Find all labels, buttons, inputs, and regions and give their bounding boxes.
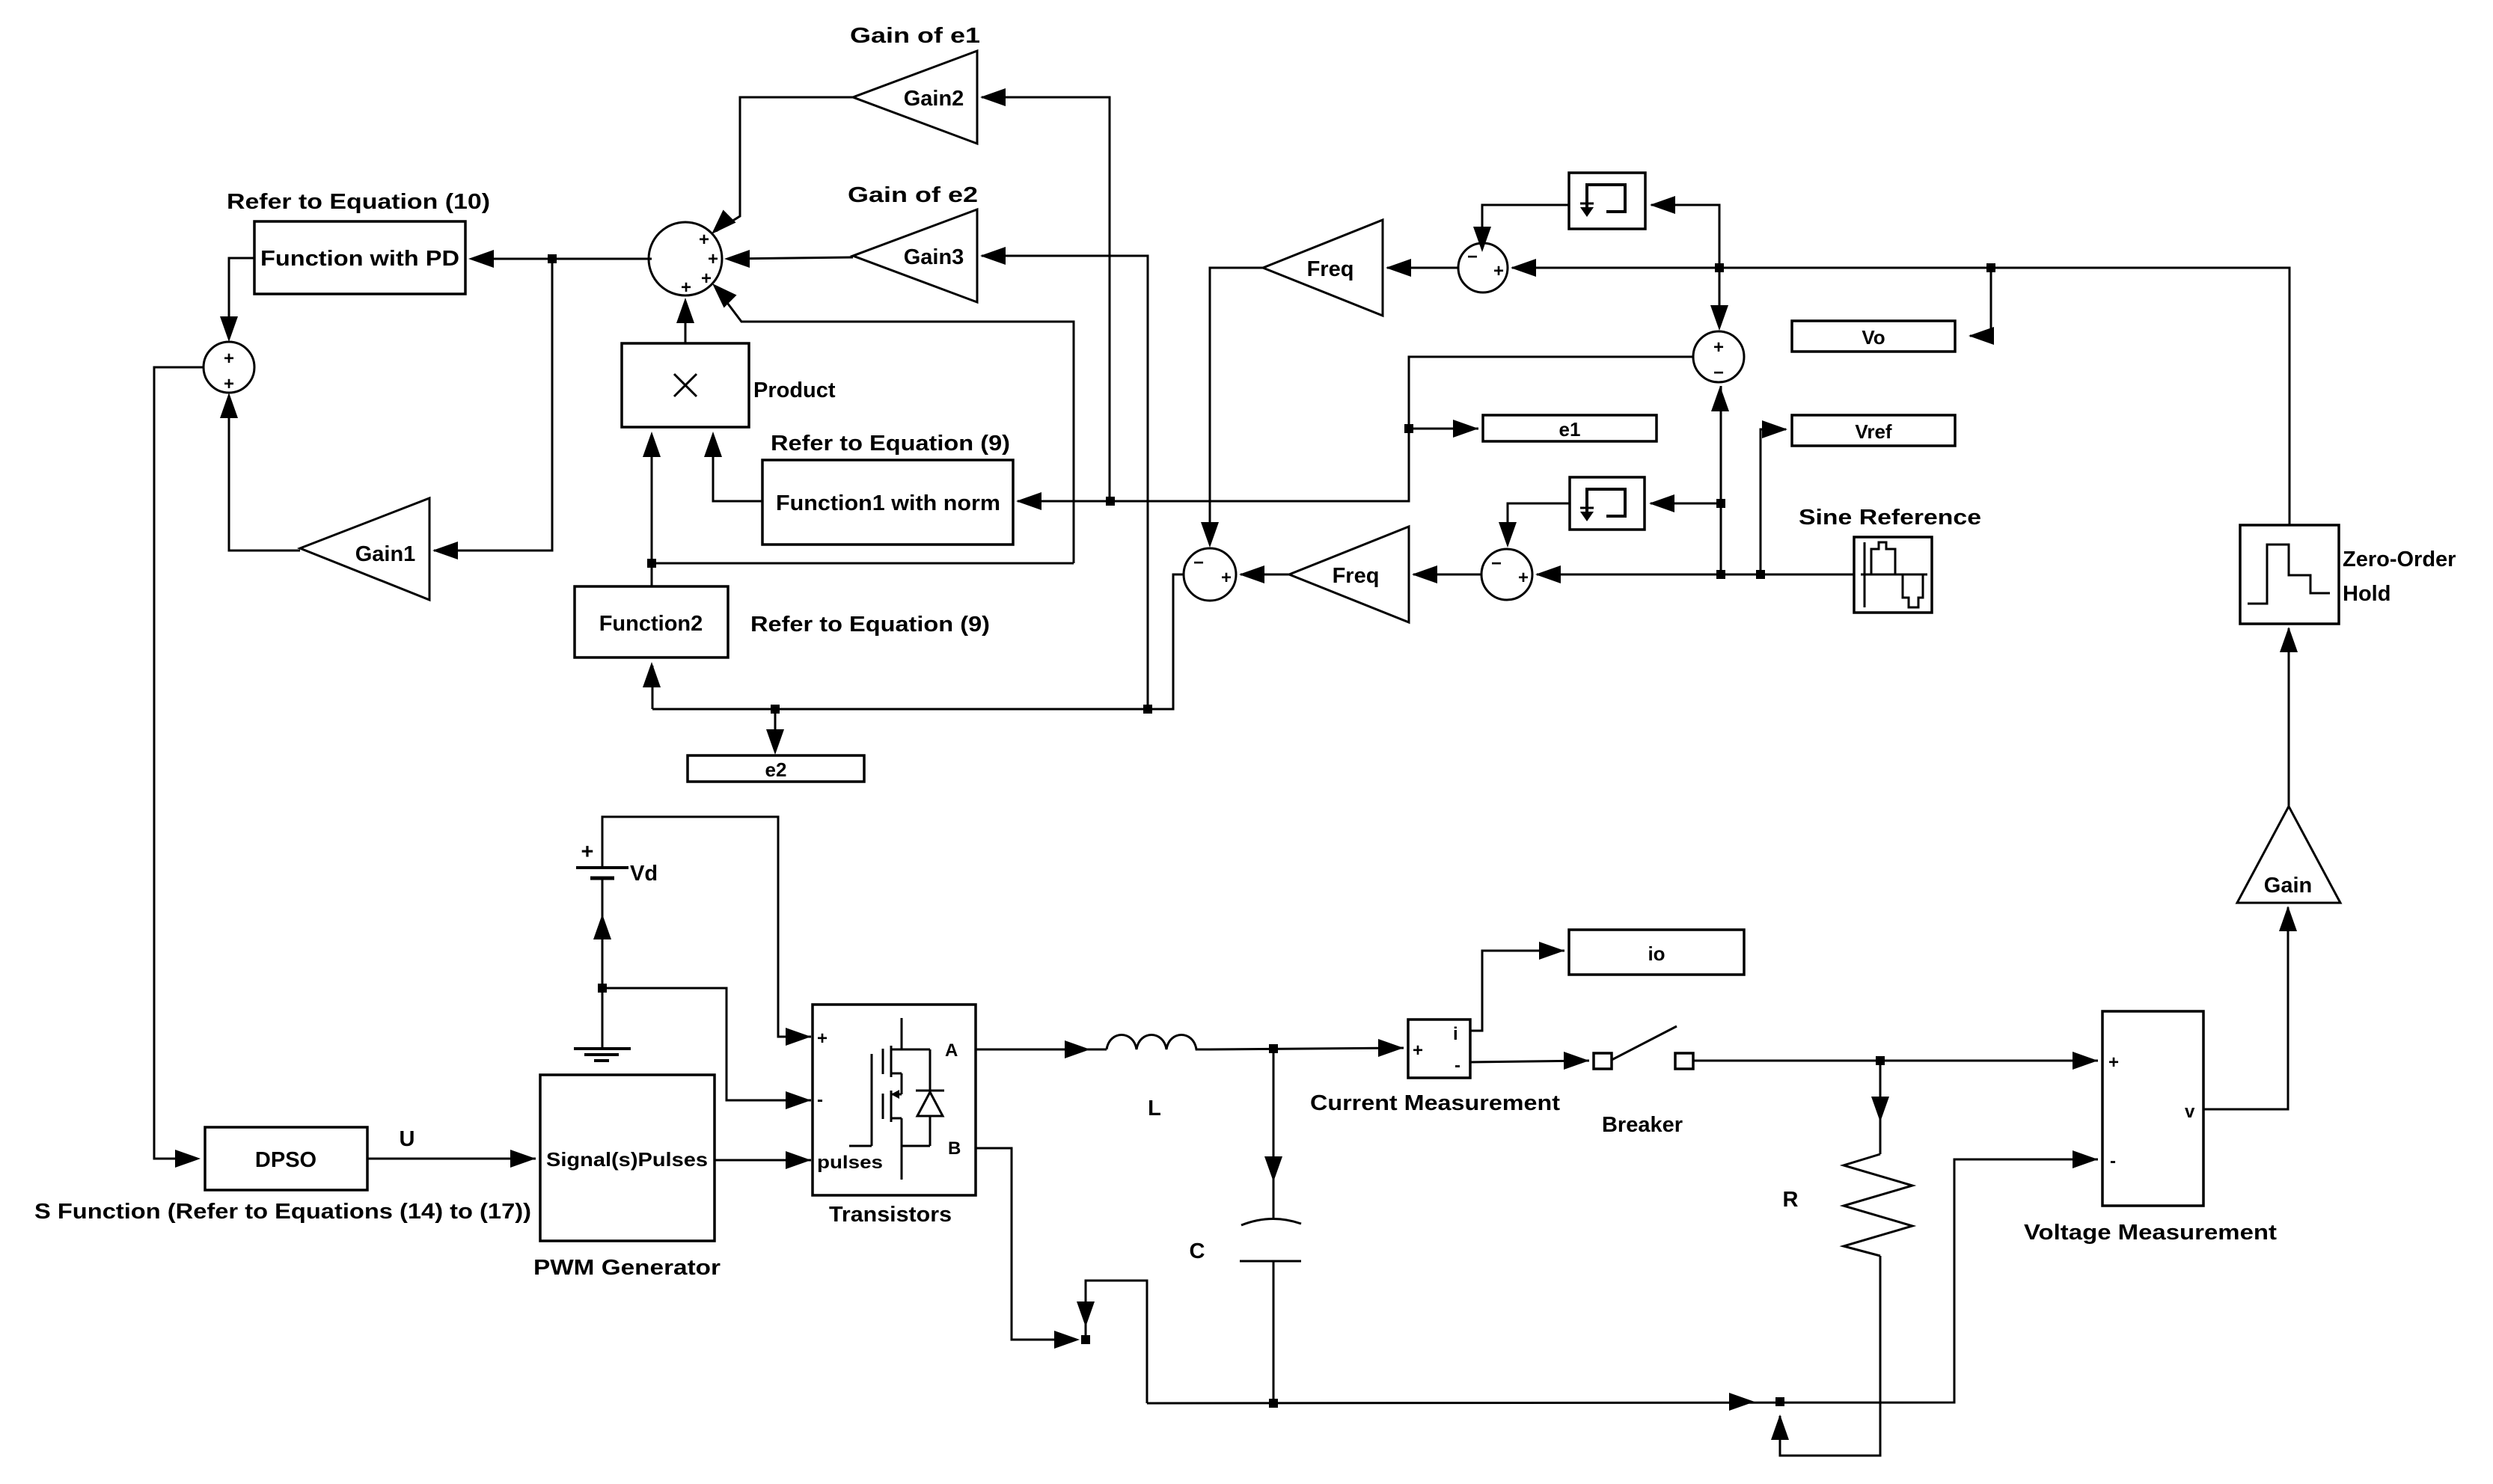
breaker switch xyxy=(1594,1026,1693,1069)
wire minus output to breaker xyxy=(1470,1061,1589,1062)
node junction on PD wire xyxy=(548,254,557,263)
node junction e1 to Gain2 xyxy=(1106,497,1115,506)
block PWM Generator xyxy=(540,1075,715,1241)
wire e2 net to Gain3 input xyxy=(982,256,1148,709)
gain Freq2 xyxy=(1289,527,1409,622)
wire junction down to Gain1 input xyxy=(434,259,552,551)
wire Vo main line east and down to ZOH xyxy=(1719,268,2289,525)
node junction sine-riser xyxy=(1716,570,1725,579)
node junction on Function2 output xyxy=(647,559,656,568)
svg-text:Gain: Gain xyxy=(2264,874,2312,898)
block Function2 xyxy=(575,586,728,657)
svg-text:Function1 with norm: Function1 with norm xyxy=(776,491,1000,515)
svg-text:Sine Reference: Sine Reference xyxy=(1799,506,1981,530)
wire Freq1 output down to freq-left sum top xyxy=(1210,268,1263,545)
svg-text:Gain3: Gain3 xyxy=(904,245,964,269)
wire e1 branch xyxy=(1409,428,1478,430)
svg-text:+: + xyxy=(1518,568,1529,588)
svg-text:+: + xyxy=(1493,261,1504,281)
wire Gain3 output to big sum E input xyxy=(727,257,853,259)
svg-text:-: - xyxy=(2110,1151,2116,1171)
block Transistors xyxy=(813,1005,976,1195)
wire R top down xyxy=(1879,1061,1882,1154)
block Function1 with norm xyxy=(762,460,1013,545)
wire A output to inductor xyxy=(976,1049,1107,1051)
wire Function2 output to Product bottom-left input xyxy=(651,435,653,586)
wire Memory2 output into sine sum top xyxy=(1508,503,1570,545)
wire junction east to riser xyxy=(652,562,1074,565)
svg-text:S Function (Refer to Equations: S Function (Refer to Equations (14) to (… xyxy=(34,1200,531,1224)
svg-text:+: + xyxy=(224,374,234,394)
svg-text:Vo: Vo xyxy=(1862,326,1885,349)
battery Vd xyxy=(576,862,658,886)
inductor L xyxy=(1107,1035,1210,1050)
block Voltage Measurement xyxy=(2102,1011,2203,1206)
svg-text:−: − xyxy=(1491,554,1502,574)
wire sine net riser into Memory2 input xyxy=(1651,503,1721,574)
wire Function2 net to big sum SE input xyxy=(716,288,1074,563)
svg-text:+: + xyxy=(1713,337,1724,358)
svg-text:v: v xyxy=(2185,1102,2195,1122)
wire battery plus up and to + port xyxy=(602,817,811,1037)
summing junction Vo sum xyxy=(1693,331,1744,383)
node junction memory2 riser xyxy=(1716,499,1725,508)
svg-text:+: + xyxy=(681,278,691,298)
resistor R xyxy=(1844,1154,1912,1256)
svg-text:Breaker: Breaker xyxy=(1602,1113,1683,1137)
wire LC junction down to capacitor xyxy=(1273,1049,1275,1218)
svg-text:+: + xyxy=(708,249,718,269)
svg-text:Gain of e1: Gain of e1 xyxy=(850,24,980,48)
wire breaker to Voltage Measurement plus xyxy=(1693,1060,2098,1062)
svg-text:+: + xyxy=(224,349,234,369)
node junction Vo display branch xyxy=(1986,263,1995,272)
sum circle freq-right xyxy=(1458,243,1508,292)
svg-text:Refer to Equation (9): Refer to Equation (9) xyxy=(771,432,1010,456)
wire Freq2 output to freq-left sum xyxy=(1241,574,1289,576)
block io display xyxy=(1569,930,1744,975)
wire Vref branch xyxy=(1761,429,1786,574)
gain Freq1 xyxy=(1263,220,1383,316)
svg-text:U: U xyxy=(400,1127,415,1151)
block Vref display xyxy=(1792,415,1955,446)
svg-text:Refer to Equation (9): Refer to Equation (9) xyxy=(750,613,990,637)
svg-text:e2: e2 xyxy=(765,758,787,781)
svg-text:Signal(s)Pulses: Signal(s)Pulses xyxy=(546,1148,708,1171)
svg-text:io: io xyxy=(1648,942,1665,965)
svg-text:+: + xyxy=(581,840,594,864)
svg-text:B: B xyxy=(948,1138,961,1159)
svg-text:Gain1: Gain1 xyxy=(355,542,416,566)
wire PD output to sum1 top xyxy=(229,258,254,338)
node junction e2 display drop xyxy=(771,705,780,714)
svg-text:Voltage Measurement: Voltage Measurement xyxy=(2024,1221,2277,1245)
wire sine net up into Vo sum bottom xyxy=(1720,386,1722,574)
svg-text:Function2: Function2 xyxy=(599,612,703,636)
wire Vo net west into freq-right sum xyxy=(1512,267,1719,269)
wire drop into e2 display xyxy=(774,709,777,751)
block Current Measurement xyxy=(1408,1020,1470,1078)
gain Gain3 xyxy=(853,209,977,302)
wire R bottom loop to rail junction xyxy=(1780,1256,1880,1456)
svg-text:Gain2: Gain2 xyxy=(904,87,964,111)
svg-text:+: + xyxy=(817,1028,828,1049)
node junction Vo main xyxy=(1715,263,1724,272)
svg-text:A: A xyxy=(945,1040,958,1061)
node junction R top xyxy=(1876,1056,1885,1065)
wire Product output to big sum bottom xyxy=(685,301,687,343)
svg-text:Vref: Vref xyxy=(1855,420,1891,443)
wire battery minus down to ground xyxy=(602,878,604,1049)
wire DPSO output to PWM Generator xyxy=(367,1158,536,1160)
svg-text:−: − xyxy=(1467,247,1478,267)
wire sum1 output down-left to DPSO xyxy=(154,367,204,1159)
svg-text:−: − xyxy=(1193,553,1204,573)
wire e2 net into Function2 bottom xyxy=(652,666,654,709)
svg-text:+: + xyxy=(1221,568,1232,588)
wire Sine Reference output west xyxy=(1537,574,1854,576)
svg-text:Zero-Order: Zero-Order xyxy=(2343,548,2456,571)
wire Vo line down into Vo sum top xyxy=(1719,268,1721,328)
wire i output to io display xyxy=(1470,951,1564,1031)
svg-text:+: + xyxy=(1413,1040,1423,1061)
wire Vo sum output west to e1 net and Function1 xyxy=(1018,357,1693,501)
wire Memory1 output to freq-right sum top xyxy=(1482,205,1569,249)
wire e1 net to Gain2 input xyxy=(982,97,1110,501)
wire freq-right sum output to Freq1 input xyxy=(1387,267,1458,269)
svg-text:Freq: Freq xyxy=(1307,257,1354,281)
wire Gain1 output to sum1 bottom xyxy=(229,404,300,551)
wire B junction up and over to rail xyxy=(1086,1281,1147,1403)
svg-text:+: + xyxy=(2108,1052,2119,1073)
block e2 display xyxy=(688,755,864,782)
node junction rail-C xyxy=(1269,1399,1278,1408)
block DPSO xyxy=(205,1127,367,1190)
svg-text:Function with PD: Function with PD xyxy=(260,247,459,271)
svg-text:Current Measurement: Current Measurement xyxy=(1310,1091,1560,1115)
block Product xyxy=(622,343,749,427)
svg-text:R: R xyxy=(1783,1188,1799,1212)
gain Gain1 xyxy=(300,498,429,600)
node junction B xyxy=(1081,1335,1090,1344)
wire B output chain xyxy=(976,1148,1069,1340)
block Vo display xyxy=(1792,321,1955,352)
svg-text:Refer to Equation (10): Refer to Equation (10) xyxy=(227,190,490,214)
node junction LC xyxy=(1269,1044,1278,1053)
summing junction sine sum xyxy=(1481,549,1532,600)
capacitor C xyxy=(1240,1218,1301,1261)
svg-text:+: + xyxy=(701,269,712,289)
sum circle freq-left xyxy=(1184,548,1236,601)
summing junction sum1 xyxy=(204,342,254,394)
icon transistors mosfets xyxy=(849,1018,944,1180)
wire Vo display branch xyxy=(1970,268,1991,336)
node junction battery-minus branch xyxy=(598,984,607,993)
svg-text:Gain of e2: Gain of e2 xyxy=(848,183,978,207)
svg-text:i: i xyxy=(1453,1024,1458,1044)
wire PWM output to pulses input xyxy=(715,1159,811,1162)
svg-text:pulses: pulses xyxy=(817,1153,883,1173)
gain Gain2 xyxy=(853,51,977,144)
wire Voltage Measurement output into Gain bottom xyxy=(2203,907,2288,1109)
block e1 display xyxy=(1483,415,1657,441)
svg-text:PWM Generator: PWM Generator xyxy=(533,1256,721,1280)
wire sine sum output to Freq2 input xyxy=(1413,574,1481,576)
svg-text:Vd: Vd xyxy=(630,862,658,886)
wire freq-left sum output to e2 net xyxy=(652,574,1184,709)
wire Gain2 output to big sum NE input xyxy=(716,97,853,231)
node junction e2 to Gain3 xyxy=(1143,705,1152,714)
svg-text:DPSO: DPSO xyxy=(255,1148,316,1172)
block Memory2 xyxy=(1570,477,1645,530)
wire inductor to Current Measurement xyxy=(1210,1048,1404,1049)
svg-text:Product: Product xyxy=(753,378,836,402)
wire Function1 output to Product bottom-right input xyxy=(713,435,762,501)
block Function with PD xyxy=(254,221,465,294)
wire bottom rail xyxy=(1147,1159,2098,1403)
svg-text:Freq: Freq xyxy=(1333,564,1380,588)
block Zero-Order Hold xyxy=(2240,525,2339,624)
node junction rail-R xyxy=(1775,1397,1784,1406)
wire Gain output into ZOH bottom xyxy=(2288,628,2290,806)
block Sine Reference xyxy=(1854,537,1932,613)
wire capacitor bottom to rail xyxy=(1273,1261,1275,1403)
svg-text:-: - xyxy=(817,1090,823,1110)
wire minus branch to - port xyxy=(602,988,811,1100)
svg-text:Hold: Hold xyxy=(2343,582,2390,606)
svg-text:L: L xyxy=(1148,1097,1161,1120)
svg-text:−: − xyxy=(1713,363,1724,383)
svg-text:+: + xyxy=(699,230,709,250)
svg-text:-: - xyxy=(1454,1055,1460,1076)
node junction sine-vref xyxy=(1756,570,1765,579)
gain Gain (vertical) xyxy=(2237,806,2340,903)
svg-text:Transistors: Transistors xyxy=(829,1203,952,1227)
node junction e1 branch xyxy=(1404,424,1413,433)
svg-text:e1: e1 xyxy=(1559,418,1581,441)
summing junction big sum xyxy=(649,222,722,298)
svg-text:C: C xyxy=(1190,1239,1205,1263)
wire big-sum output to Function with PD input xyxy=(471,258,652,260)
ground xyxy=(574,1049,631,1061)
wire Vo net into Memory1 input xyxy=(1651,205,1719,268)
block Memory1 xyxy=(1569,173,1645,229)
